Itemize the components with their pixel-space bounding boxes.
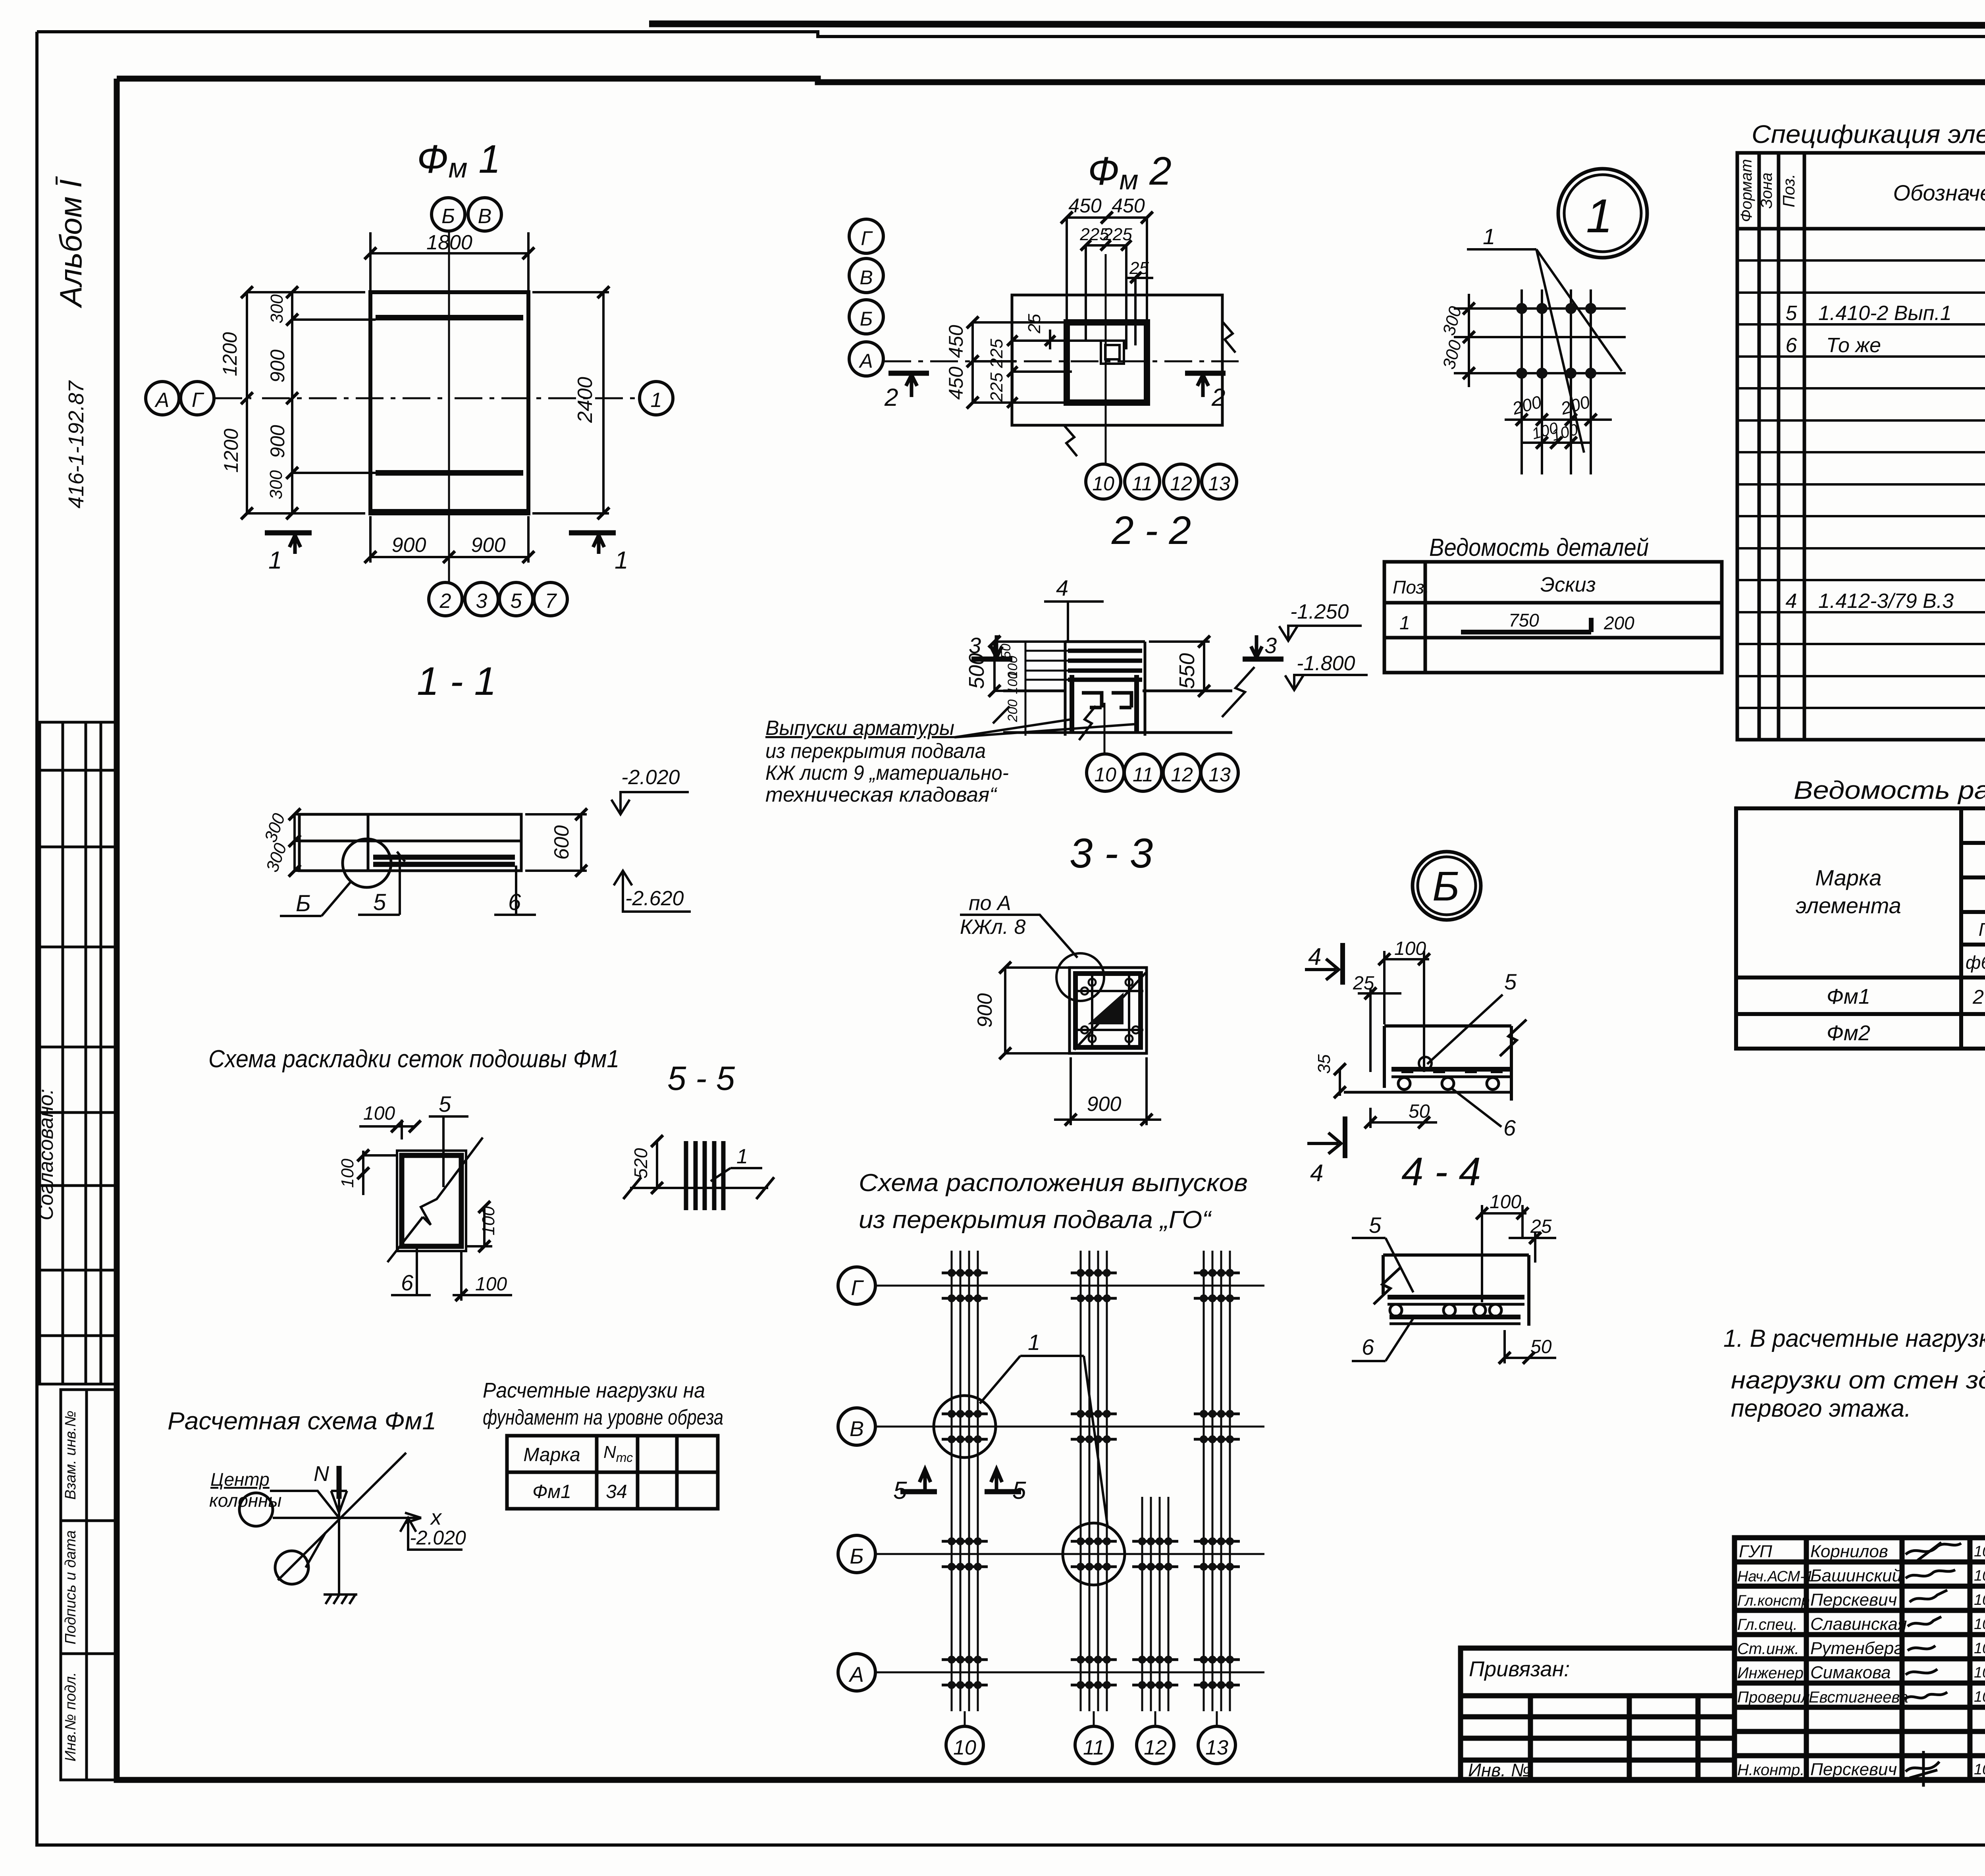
svg-text:900: 900 (471, 534, 506, 557)
svg-text:13: 13 (1208, 472, 1230, 495)
svg-text:элемента: элемента (1796, 893, 1901, 918)
svg-text:10: 10 (953, 1736, 976, 1759)
left dim 300/300 (295, 814, 299, 871)
svg-text:750: 750 (1509, 610, 1539, 630)
svg-text:550: 550 (1175, 653, 1199, 689)
outlets row V (942, 1398, 988, 1455)
svg-text:А: А (848, 1663, 864, 1687)
svg-text:нагрузки от стен здания и поле: нагрузки от стен здания и полезная нагру… (1731, 1367, 1985, 1394)
svg-text:11: 11 (1132, 472, 1152, 495)
leader 5 (358, 858, 400, 915)
axis circle A stack (849, 342, 883, 376)
svg-text:Эскиз: Эскиз (1540, 573, 1596, 596)
detail circle B-11 (1063, 1523, 1125, 1585)
svg-text:В: В (850, 1417, 864, 1441)
svg-text:6: 6 (1362, 1334, 1374, 1359)
horizontal centerline (214, 397, 640, 399)
outlets row G (942, 1257, 988, 1314)
svg-text:Ст.инж.: Ст.инж. (1737, 1640, 1799, 1658)
svg-text:10.86: 10.86 (1974, 1689, 1985, 1705)
inner mesh lines (1075, 974, 1143, 1047)
axis circle B row (838, 1535, 875, 1573)
section mark 4 top (1340, 943, 1345, 985)
detail circle V-10 (934, 1396, 996, 1458)
svg-text:Фм1: Фм1 (532, 1481, 571, 1502)
elevation -2.020 (621, 792, 689, 814)
svg-text:6: 6 (508, 889, 521, 915)
svg-text:10.86: 10.86 (1974, 1664, 1985, 1681)
svg-text:Альбом Ī: Альбом Ī (53, 176, 88, 308)
svg-text:450: 450 (945, 366, 967, 400)
foundation square thick (1067, 322, 1147, 403)
svg-text:Марка: Марка (1815, 865, 1881, 890)
svg-text:Башинский: Башинский (1810, 1566, 1902, 1585)
svg-text:1: 1 (651, 389, 662, 412)
vertical centerline (448, 231, 450, 557)
svg-text:А: А (154, 389, 170, 412)
svg-text:7: 7 (545, 590, 557, 613)
top scan streak (649, 24, 1985, 25)
svg-text:техническая кладовая“: техническая кладовая“ (765, 783, 998, 806)
svg-text:10.86: 10.86 (1974, 1761, 1985, 1778)
svg-text:Подпись и дата: Подпись и дата (62, 1530, 79, 1644)
axis circles 2 3 5 7 bottom (448, 557, 450, 582)
svg-text:200: 200 (1005, 700, 1020, 723)
svg-text:1: 1 (268, 547, 282, 574)
bottom line (1344, 1091, 1510, 1094)
svg-text:12: 12 (1171, 764, 1193, 786)
svg-text:из перекрытия подвала „ГО“: из перекрытия подвала „ГО“ (859, 1206, 1212, 1234)
elevation -1.250 (1288, 626, 1362, 641)
svg-text:100: 100 (1394, 938, 1426, 959)
svg-text:-1.800: -1.800 (1297, 652, 1355, 675)
svg-text:450: 450 (1068, 195, 1102, 217)
svg-text:Гл.спец.: Гл.спец. (1737, 1616, 1798, 1633)
svg-text:2: 2 (1211, 384, 1225, 411)
diagonal line (278, 1453, 406, 1580)
axis circle G row (838, 1267, 875, 1304)
svg-text:1. В расчетные нагрузки на фу: 1. В расчетные нагрузки на фундамент не … (1723, 1325, 1985, 1352)
svg-text:225: 225 (987, 339, 1006, 368)
svg-text:В: В (860, 266, 873, 289)
svg-text:6: 6 (1503, 1115, 1516, 1140)
svg-text:200: 200 (1603, 613, 1634, 633)
svg-text:А: А (858, 350, 873, 372)
leader B (280, 881, 352, 916)
column sides (1072, 675, 1137, 732)
svg-text:Расчетные нагрузки на: Расчетные нагрузки на (483, 1379, 705, 1402)
svg-text:4: 4 (1310, 1160, 1323, 1186)
svg-text:416-1-192.87: 416-1-192.87 (64, 380, 88, 508)
axis circle G stack (849, 219, 883, 253)
svg-text:Корнилов: Корнилов (1810, 1542, 1888, 1561)
axis line A (875, 1672, 1264, 1674)
node circle 1 (1558, 169, 1647, 258)
square 900 outer (1070, 968, 1147, 1053)
svg-text:600: 600 (550, 825, 573, 860)
svg-text:-2.020: -2.020 (621, 766, 680, 789)
svg-text:Б: Б (1432, 863, 1459, 910)
svg-text:25: 25 (1025, 314, 1044, 334)
mesh 5 top band (376, 315, 523, 320)
break mark right (1222, 322, 1235, 353)
mesh grid detail (1454, 308, 1626, 373)
svg-text:4: 4 (1786, 590, 1797, 613)
axis circle V row (838, 1408, 875, 1445)
axis circle A left (146, 382, 179, 415)
section mark 5 right (985, 1489, 1021, 1494)
svg-text:Рутенберг: Рутенберг (1810, 1639, 1902, 1658)
svg-text:1: 1 (615, 547, 628, 574)
svg-text:10.86: 10.86 (1974, 1568, 1985, 1584)
svg-text:100: 100 (363, 1103, 395, 1124)
svg-text:5: 5 (893, 1477, 907, 1504)
soglasovano stamp grid (40, 722, 116, 1384)
svg-text:Н.контр.: Н.контр. (1737, 1761, 1804, 1779)
svg-text:1.412-3/79 В.3: 1.412-3/79 В.3 (1818, 590, 1954, 613)
section mark 1 right (569, 530, 616, 536)
svg-text:3: 3 (476, 590, 488, 613)
axis circles 10-13 (1105, 425, 1107, 464)
svg-text:-2.620: -2.620 (625, 887, 684, 910)
svg-text:450: 450 (945, 325, 967, 358)
svg-text:ГУП: ГУП (1739, 1542, 1772, 1561)
svg-text:10.86: 10.86 (1974, 1640, 1985, 1657)
svg-text:Евстигнеева: Евстигнеева (1809, 1689, 1908, 1706)
section mark 1 left (265, 530, 312, 536)
leader lines to vypuski text (954, 719, 1134, 737)
dim 300/300 left (1468, 294, 1470, 387)
left dim chain 300/900/900/300 (292, 292, 376, 513)
svg-text:1: 1 (736, 1145, 748, 1168)
svg-text:Спецификация элементов монол: Спецификация элементов монолитной констр… (1752, 120, 1985, 148)
axis circle B stack (849, 300, 883, 334)
svg-text:-1.250: -1.250 (1290, 600, 1349, 623)
svg-text:Схема расположения выпусков: Схема расположения выпусков (859, 1169, 1248, 1197)
svg-text:6: 6 (1786, 334, 1797, 357)
svg-text:1: 1 (1483, 224, 1495, 249)
elevation -2.620 (623, 871, 691, 912)
svg-text:Перскевич: Перскевич (1810, 1590, 1897, 1610)
mesh square (397, 1151, 466, 1251)
foundation top line (1003, 690, 1232, 692)
mesh dots row1 (1516, 303, 1527, 314)
svg-text:1.410-2 Вып.1: 1.410-2 Вып.1 (1818, 302, 1952, 325)
svg-text:5: 5 (1786, 302, 1798, 325)
ground hatch (324, 1595, 357, 1604)
lower stamp column (61, 1390, 115, 1780)
section mark 3 left (971, 657, 1012, 662)
svg-text:Согласовано:: Согласовано: (35, 1089, 58, 1220)
break mark (1500, 1020, 1526, 1056)
pit outline (1012, 295, 1222, 425)
rebar circles lower (1390, 1304, 1402, 1316)
column 10 lines (952, 1251, 978, 1711)
column double square (1101, 341, 1124, 364)
svg-text:Б: Б (296, 891, 311, 916)
svg-text:225: 225 (1102, 225, 1132, 244)
circle 1 (239, 1493, 273, 1526)
svg-text:1 - 1: 1 - 1 (417, 659, 496, 704)
svg-text:Г: Г (861, 227, 873, 249)
column 13 lines (1204, 1251, 1230, 1711)
svg-text:Симакова: Симакова (1810, 1663, 1891, 1682)
leader 6 (494, 866, 536, 915)
section mark 2 left (888, 371, 929, 376)
rebar circles (1398, 1078, 1410, 1089)
svg-text:В: В (478, 205, 492, 228)
svg-text:100: 100 (1005, 672, 1020, 694)
section mark 4 bottom (1343, 1116, 1347, 1158)
svg-text:-2.020: -2.020 (410, 1527, 466, 1549)
svg-text:10.86,: 10.86, (1974, 1543, 1985, 1560)
svg-text:Ведомость деталей: Ведомость деталей (1429, 534, 1649, 561)
svg-text:900: 900 (1087, 1093, 1122, 1116)
svg-text:10: 10 (1094, 764, 1116, 786)
dim 200/200 (1505, 418, 1612, 421)
signatures squiggles (1906, 1542, 1961, 1560)
svg-text:13: 13 (1208, 764, 1231, 786)
axis circles below 3-3 (1104, 703, 1106, 754)
svg-text:Славинская: Славинская (1810, 1614, 1907, 1634)
right dim 2400 (532, 292, 609, 513)
axis line B (875, 1553, 1264, 1555)
svg-text:Фм2: Фм2 (1827, 1021, 1870, 1045)
svg-text:5: 5 (439, 1091, 451, 1116)
section mark 2 right (1185, 371, 1226, 376)
svg-text:2 - 2: 2 - 2 (1111, 508, 1191, 553)
outlets row B (942, 1525, 988, 1583)
svg-text:2: 2 (439, 590, 451, 613)
svg-text:Инв.№ подл.: Инв.№ подл. (62, 1672, 79, 1761)
circle 2 (275, 1551, 308, 1584)
svg-text:ф6: ф6 (1966, 952, 1985, 973)
svg-text:10: 10 (1092, 472, 1114, 495)
svg-text:1200: 1200 (220, 428, 242, 472)
axis circle A row (838, 1654, 875, 1691)
mesh bars lower (1388, 1297, 1524, 1317)
dim 100/100 (1522, 442, 1591, 444)
outlets row A (942, 1644, 988, 1701)
svg-text:То же: То же (1826, 334, 1881, 357)
svg-text:Перскевич: Перскевич (1810, 1760, 1897, 1779)
svg-text:Зона: Зона (1758, 172, 1775, 208)
svg-text:10.86: 10.86 (1974, 1616, 1985, 1633)
slab outline 4-4 (1384, 1026, 1511, 1101)
svg-text:12: 12 (1144, 1736, 1167, 1759)
axis circle B(b) top (432, 198, 465, 231)
svg-text:12: 12 (1170, 472, 1192, 495)
axis circle V top (468, 198, 501, 231)
svg-text:225: 225 (987, 372, 1006, 402)
svg-text:100: 100 (1490, 1192, 1521, 1213)
mesh 6 bottom band (372, 473, 527, 512)
svg-text:Обозначение: Обозначение (1893, 180, 1985, 205)
svg-text:Ведомость расхода стали на: Ведомость расхода стали на элемент, кг (1794, 776, 1985, 804)
svg-text:первого этажа.: первого этажа. (1731, 1395, 1911, 1422)
svg-text:5: 5 (511, 590, 522, 613)
svg-text:450: 450 (1112, 195, 1145, 217)
svg-text:5: 5 (1369, 1213, 1382, 1238)
svg-text:2: 2 (884, 384, 898, 411)
left dim chain 1200/1200 (247, 292, 365, 513)
slab outline lower (1383, 1255, 1529, 1326)
slab outline (299, 814, 521, 871)
svg-text:Г: Г (851, 1276, 864, 1300)
5-5 detail bars (686, 1141, 723, 1210)
svg-text:35: 35 (1314, 1054, 1334, 1074)
svg-text:4: 4 (1308, 943, 1321, 970)
svg-text:300: 300 (267, 294, 287, 324)
mesh bars in slab (373, 857, 515, 864)
axis circle V stack (849, 258, 883, 293)
svg-text:Выпуски арматуры: Выпуски арматуры (765, 717, 954, 740)
svg-text:Гл.констр: Гл.констр (1737, 1593, 1810, 1609)
svg-text:1200: 1200 (219, 332, 241, 376)
svg-text:6: 6 (401, 1270, 414, 1295)
diagonal with filled wedge (1074, 973, 1146, 1050)
svg-text:Привязан:: Привязан: (1469, 1657, 1570, 1681)
svg-text:3: 3 (1264, 633, 1277, 658)
svg-text:Г: Г (192, 389, 204, 412)
svg-text:Расчетная схема Фм1: Расчетная схема Фм1 (168, 1407, 436, 1435)
svg-text:10.86: 10.86 (1974, 1592, 1985, 1608)
svg-text:1: 1 (1028, 1330, 1040, 1355)
table (1384, 562, 1722, 673)
svg-text:1: 1 (1586, 189, 1613, 243)
svg-text:3: 3 (969, 633, 981, 658)
elevation -1.800 (1294, 675, 1368, 690)
svg-text:КЖл. 8: КЖл. 8 (960, 916, 1026, 939)
right dim 600 (525, 814, 587, 871)
column 12 lines (1142, 1497, 1168, 1711)
section mark 5 left (900, 1489, 937, 1494)
elevation -2.020 (408, 1518, 463, 1550)
svg-text:Инв. №: Инв. № (1468, 1760, 1531, 1780)
svg-text:Инженер: Инженер (1737, 1664, 1804, 1682)
svg-text:300: 300 (266, 470, 286, 499)
svg-text:100: 100 (475, 1274, 507, 1295)
rebar hooks (1082, 693, 1131, 708)
svg-text:520: 520 (630, 1148, 651, 1178)
svg-text:фундамент на уровне обреза: фундамент на уровне обреза (483, 1406, 723, 1429)
svg-text:Марка: Марка (523, 1444, 580, 1465)
svg-text:Схема раскладки сеток подошвы: Схема раскладки сеток подошвы Фм1 (208, 1045, 619, 1073)
bottom dim 900/900 (370, 516, 528, 563)
svg-text:1: 1 (1399, 613, 1410, 634)
sketch detail pos1 (1461, 618, 1591, 632)
svg-text:900: 900 (392, 534, 426, 557)
svg-text:11: 11 (1083, 1736, 1104, 1759)
svg-text:КЖ лист 9 „материально-: КЖ лист 9 „материально- (765, 762, 1009, 785)
svg-text:5: 5 (373, 889, 386, 915)
svg-text:Фм1: Фм1 (1827, 985, 1870, 1008)
column 11 lines (1081, 1251, 1107, 1711)
svg-text:Б: Б (441, 205, 455, 228)
svg-text:Б: Б (850, 1544, 863, 1568)
small circles (1089, 979, 1096, 986)
axis circle 1 right (640, 382, 673, 415)
svg-text:по А: по А (969, 892, 1011, 915)
svg-text:4 - 4: 4 - 4 (1401, 1149, 1481, 1194)
N force arrow (337, 1466, 342, 1499)
svg-text:5 - 5: 5 - 5 (667, 1060, 735, 1097)
svg-text:900: 900 (266, 349, 289, 383)
svg-text:Взам. инв.№: Взам. инв.№ (62, 1411, 79, 1500)
break zigzag left (993, 706, 1010, 723)
svg-text:13: 13 (1205, 1736, 1228, 1759)
axis circle G left (181, 382, 214, 415)
svg-text:2400: 2400 (574, 377, 597, 423)
slab mesh zone (1065, 642, 1145, 736)
svg-text:11: 11 (1133, 764, 1153, 786)
break mark left (1374, 1268, 1400, 1304)
svg-text:x: x (430, 1506, 442, 1529)
svg-text:ГОСТ 5781-82*: ГОСТ 5781-82* (1979, 919, 1985, 940)
svg-text:900: 900 (973, 993, 996, 1028)
svg-text:5: 5 (1504, 969, 1517, 994)
detail circle B (343, 839, 391, 887)
svg-text:Формат: Формат (1738, 159, 1755, 222)
svg-text:Нач.АСМ-1: Нач.АСМ-1 (1737, 1568, 1813, 1585)
svg-text:900: 900 (266, 425, 289, 458)
svg-text:Поз.: Поз. (1393, 577, 1430, 598)
axis line V (875, 1426, 1264, 1428)
svg-text:Б: Б (860, 308, 873, 330)
svg-text:N: N (314, 1462, 330, 1486)
svg-text:34: 34 (606, 1481, 627, 1502)
diagonal break line (387, 1138, 483, 1262)
mesh bars (1391, 1067, 1510, 1072)
svg-text:Проверил: Проверил (1737, 1689, 1810, 1706)
section mark 3 right (1243, 657, 1284, 662)
svg-text:3 - 3: 3 - 3 (1070, 830, 1153, 877)
svg-text:5: 5 (1012, 1477, 1026, 1504)
svg-text:Поз.: Поз. (1779, 174, 1798, 208)
svg-text:2: 2 (1972, 986, 1984, 1008)
mesh dots row2 (1516, 368, 1527, 379)
svg-text:4: 4 (1056, 575, 1068, 600)
svg-text:100: 100 (338, 1159, 357, 1188)
bottom line (1003, 731, 1232, 734)
svg-text:Центр: Центр (210, 1469, 270, 1490)
leader circle (1056, 953, 1104, 1001)
plan rectangle Fm1 (370, 292, 528, 513)
svg-text:из перекрытия подвала: из перекрытия подвала (765, 740, 986, 763)
axis line G (875, 1285, 1264, 1287)
centerlines Fm2 (1105, 254, 1107, 461)
bottom axis circles scheme (965, 1711, 1217, 1726)
axis cross (273, 1466, 421, 1595)
